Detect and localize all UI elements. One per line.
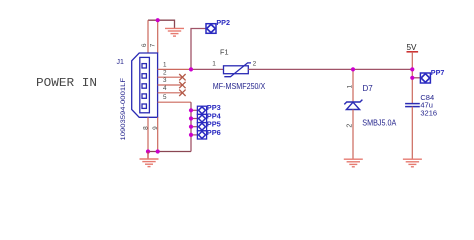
svg-text:F1: F1 <box>220 48 229 57</box>
junction dot pin 8 / ground <box>146 149 150 153</box>
svg-text:7: 7 <box>149 43 156 47</box>
wire J1 pin5 down to test point chain <box>190 102 192 151</box>
svg-text:J1: J1 <box>117 59 125 66</box>
wire PP3 tap <box>191 109 197 111</box>
svg-text:PP2: PP2 <box>216 18 230 27</box>
svg-text:5V: 5V <box>407 43 418 52</box>
test point PP2 <box>206 24 216 34</box>
wire PP4 tap <box>191 118 197 120</box>
capacitor C84 <box>405 104 420 107</box>
power symbol 5V <box>407 51 419 53</box>
wire main net F1 to 5V rail <box>248 68 412 70</box>
junction dot main net / PP2 <box>189 67 193 71</box>
junction dot main net / 5V rail <box>410 67 414 71</box>
J1 pin 6 wire <box>147 20 149 53</box>
J1 pin 9 wire <box>157 117 159 151</box>
svg-text:5: 5 <box>163 94 167 101</box>
J1 pin 3 wire <box>158 84 183 86</box>
svg-text:2: 2 <box>346 124 353 128</box>
svg-text:POWER IN: POWER IN <box>36 76 97 90</box>
test point PP6 <box>197 131 206 139</box>
svg-text:1: 1 <box>163 62 167 69</box>
junction dot PP3 <box>189 108 193 112</box>
ground (below J1) <box>140 152 159 167</box>
J1 pin 1 wire <box>158 68 191 70</box>
junction dot pin 9 <box>156 149 160 153</box>
no-connect X on pin 2 <box>179 74 185 80</box>
junction dot PP6 <box>189 133 193 137</box>
junction dot D7 tap <box>351 67 355 71</box>
test point PP7 <box>420 73 430 83</box>
no-connect X on pin 4 <box>179 90 185 96</box>
wire C84 lower lead <box>411 107 413 159</box>
svg-text:3216: 3216 <box>420 108 437 117</box>
svg-text:9: 9 <box>152 126 159 130</box>
wire D7 branch lower lead <box>352 110 354 160</box>
diode D7 (TVS) <box>344 100 362 110</box>
ground (top, near J1 pins 6/7) <box>165 28 184 36</box>
svg-text:6: 6 <box>141 43 148 47</box>
junction dot PP4 <box>189 116 193 120</box>
wire D7 branch upper lead <box>352 69 354 102</box>
wire PP6 tap <box>191 134 197 136</box>
svg-text:1: 1 <box>212 61 216 68</box>
test point PP4 <box>197 114 206 122</box>
J1 pin 8 wire <box>147 117 149 151</box>
svg-text:SMBJ5.0A: SMBJ5.0A <box>362 118 396 127</box>
wire from PP2 down to main net <box>191 29 206 70</box>
svg-text:10903594-0001LF: 10903594-0001LF <box>120 78 127 141</box>
wire 5V rail down to C84 <box>411 52 413 103</box>
svg-text:4: 4 <box>163 85 167 92</box>
svg-text:2: 2 <box>163 69 167 76</box>
ground (below D7) <box>344 159 363 167</box>
J1 pin 4 wire <box>158 92 183 94</box>
svg-text:PP7: PP7 <box>431 68 445 77</box>
svg-text:MF-MSMF250/X: MF-MSMF250/X <box>213 81 266 91</box>
wire PP7 tap <box>412 77 420 79</box>
junction dot PP7 tap <box>410 76 414 80</box>
svg-text:2: 2 <box>253 61 257 68</box>
svg-text:3: 3 <box>163 77 167 84</box>
wire PP5 tap <box>191 126 197 128</box>
J1 pin 2 wire <box>158 76 183 78</box>
fuse F1 <box>224 63 252 77</box>
svg-text:1: 1 <box>346 85 353 89</box>
wire bottom net pins 8/9 to ground and test points <box>148 151 191 153</box>
wire main net J1 pin1 to F1 <box>191 68 224 70</box>
no-connect X on pin 3 <box>179 82 185 88</box>
junction dot PP5 <box>189 125 193 129</box>
J1 pin 7 wire <box>157 20 159 53</box>
connector J1 body <box>132 53 158 117</box>
test point PP3 <box>197 106 206 114</box>
junction dot pins 6/7 net <box>156 18 160 22</box>
test point PP5 <box>197 123 206 131</box>
J1 pin 5 wire <box>158 101 191 103</box>
svg-text:8: 8 <box>142 126 149 130</box>
wire top net from pin6 to ground <box>148 20 175 28</box>
svg-text:PP6: PP6 <box>207 128 221 137</box>
ground (below C84) <box>403 159 422 167</box>
svg-text:D7: D7 <box>363 84 374 93</box>
